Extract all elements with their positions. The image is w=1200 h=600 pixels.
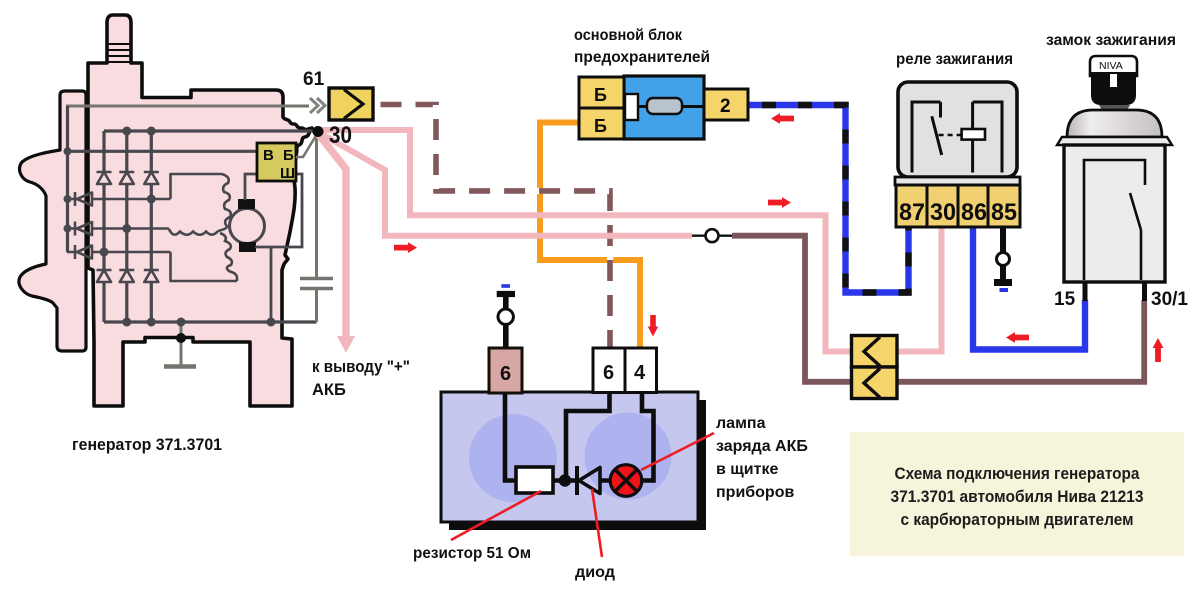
svg-text:замок зажигания: замок зажигания bbox=[1046, 32, 1176, 49]
relay base bar bbox=[895, 177, 1020, 185]
wire blue relay 86 to lock 15 bbox=[973, 227, 1085, 350]
rectifier bottom diodes bbox=[97, 270, 159, 282]
diode bbox=[575, 466, 579, 495]
red arrow right near node30 bbox=[394, 242, 417, 253]
svg-text:85: 85 bbox=[991, 199, 1017, 226]
svg-text:6: 6 bbox=[603, 362, 614, 384]
wire brown to lock 30/1 bbox=[732, 236, 1144, 382]
svg-text:Б: Б bbox=[594, 85, 607, 105]
generator main body bbox=[88, 15, 312, 406]
connector pair boxes bbox=[852, 336, 898, 368]
svg-text:основной блок: основной блок bbox=[574, 27, 683, 44]
voltage regulator box bbox=[257, 143, 296, 181]
resistor 51 Ohm bbox=[516, 467, 553, 493]
fuse terminal 2 bbox=[704, 89, 748, 120]
svg-text:87: 87 bbox=[899, 199, 925, 226]
stator winding phase C bbox=[220, 233, 237, 281]
capacitor bbox=[300, 279, 333, 289]
svg-text:Б: Б bbox=[594, 116, 607, 136]
red annotation lines bbox=[451, 433, 714, 557]
svg-text:в щитке: в щитке bbox=[716, 461, 778, 478]
fuse element bbox=[647, 98, 682, 114]
relay contact bbox=[912, 102, 942, 173]
aux diode 1 bbox=[67, 174, 222, 206]
fuse notch bbox=[625, 94, 638, 120]
regulator feed wire bbox=[68, 150, 259, 153]
svg-text:В: В bbox=[263, 147, 274, 164]
panel circle right bbox=[585, 413, 672, 500]
rectifier top diodes bbox=[97, 172, 159, 184]
junction phase1 winding C bbox=[100, 248, 109, 257]
red arrow down at 4 bbox=[648, 315, 658, 337]
wire pink node30 to connector circle bbox=[318, 132, 692, 236]
capacitor leads bbox=[315, 133, 318, 322]
arrow to battery bbox=[337, 336, 355, 353]
wire pink node30 to relay pin 30 bbox=[318, 130, 942, 352]
junction aux bus regulator feed bbox=[64, 147, 72, 155]
instrument panel bbox=[441, 392, 698, 522]
svg-text:61: 61 bbox=[303, 69, 325, 90]
svg-text:30/1: 30/1 bbox=[1151, 289, 1188, 310]
svg-text:15: 15 bbox=[1054, 289, 1076, 310]
wire orange fuse to panel bbox=[540, 123, 640, 348]
lock body bbox=[1064, 145, 1165, 282]
svg-text:30: 30 bbox=[930, 199, 956, 226]
junction aux bus diode2 bbox=[64, 225, 72, 233]
lock flange bbox=[1057, 137, 1172, 145]
terminal 61 connector box bbox=[329, 88, 373, 120]
lock dome bbox=[1067, 110, 1162, 137]
junction ground bottom bus bbox=[177, 318, 186, 327]
relay 85 ground wire bbox=[1000, 227, 1006, 280]
ground stem bbox=[180, 322, 183, 365]
junction phase2 bottom bus bbox=[122, 318, 131, 327]
ground bar bbox=[164, 364, 196, 369]
lock pin 30/1 bbox=[1142, 283, 1147, 301]
svg-text:2: 2 bbox=[720, 96, 731, 117]
panel ground top bbox=[501, 284, 510, 288]
svg-text:Ш: Ш bbox=[280, 165, 295, 182]
fuse box blue body bbox=[624, 76, 704, 139]
junction phase3 bottom bus bbox=[147, 318, 156, 327]
generator left bracket plate bbox=[19, 91, 86, 351]
svg-text:предохранителей: предохранителей bbox=[574, 49, 710, 66]
charge lamp bbox=[610, 465, 642, 497]
relay coil link dashed bbox=[939, 134, 962, 137]
svg-text:реле зажигания: реле зажигания bbox=[896, 51, 1013, 68]
svg-text:86: 86 bbox=[961, 199, 987, 226]
connector circle bbox=[692, 234, 732, 236]
junction phase2 winding B bbox=[122, 224, 131, 233]
ground body dot bbox=[176, 333, 186, 343]
panel shadow bbox=[449, 400, 706, 530]
relay pin 87 bbox=[896, 185, 927, 227]
lock pin 15 bbox=[1083, 283, 1088, 301]
phase line 2 bbox=[125, 131, 128, 322]
phase line 1 bbox=[102, 131, 105, 322]
svg-text:АКБ: АКБ bbox=[312, 381, 346, 399]
svg-text:Б: Б bbox=[283, 147, 294, 164]
wire brown dashed 61 to panel bbox=[373, 105, 610, 348]
red arrow left at fuse bbox=[771, 113, 794, 124]
panel connector 6 mauve bbox=[489, 348, 522, 393]
svg-text:371.3701 автомобиля Нива 21213: 371.3701 автомобиля Нива 21213 bbox=[891, 488, 1144, 506]
svg-text:Схема подключения генератора: Схема подключения генератора bbox=[895, 465, 1141, 483]
ground minus blue bbox=[1000, 288, 1009, 292]
brush bottom bbox=[239, 242, 256, 252]
svg-text:приборов: приборов bbox=[716, 484, 794, 501]
top bus to node 30 bbox=[104, 129, 316, 132]
phase line 3 bbox=[150, 131, 153, 322]
svg-text:6: 6 bbox=[500, 363, 511, 385]
aux diode bus bbox=[66, 106, 69, 252]
relay body bbox=[898, 82, 1017, 177]
junction phase3 top bus bbox=[147, 127, 156, 136]
svg-text:4: 4 bbox=[634, 362, 646, 384]
panel connector 4 white bbox=[625, 348, 657, 393]
lock switch bbox=[1084, 160, 1145, 280]
junction aux bus diode1 bbox=[64, 195, 72, 203]
svg-text:заряда АКБ: заряда АКБ bbox=[716, 438, 808, 455]
svg-text:лампа: лампа bbox=[716, 415, 766, 432]
relay pin 85 bbox=[988, 185, 1020, 227]
svg-text:с карбюраторным двигателем: с карбюраторным двигателем bbox=[901, 511, 1134, 529]
relay pin 86 bbox=[958, 185, 988, 227]
panel connector 6 white bbox=[593, 348, 625, 393]
wire terminal 61 gray bbox=[68, 106, 310, 151]
fuse terminal Б lower bbox=[579, 108, 624, 139]
caption box bbox=[850, 432, 1184, 556]
wire blue dashed fuse 2 to relay 87 bbox=[748, 105, 909, 293]
key body black bbox=[1091, 72, 1136, 105]
fuse wire bbox=[638, 105, 704, 108]
key shaft bbox=[1099, 105, 1130, 112]
aux diode 2 bbox=[67, 222, 169, 236]
relay pin 30 bbox=[927, 185, 958, 227]
panel circle left bbox=[469, 414, 557, 502]
stator winding phase A bbox=[218, 174, 231, 231]
panel internal wires bbox=[505, 392, 654, 481]
junction phase2 top bus bbox=[122, 127, 131, 136]
key head bbox=[1090, 56, 1137, 76]
ground bar 85 bbox=[994, 279, 1012, 286]
junction brush bottom bus bbox=[267, 318, 276, 327]
svg-text:30: 30 bbox=[329, 122, 352, 149]
svg-text:к выводу "+": к выводу "+" bbox=[312, 358, 410, 376]
stator winding phase B bbox=[169, 229, 218, 235]
brush top bbox=[238, 199, 255, 209]
connector circle 85 bbox=[997, 253, 1010, 266]
svg-text:NIVA: NIVA bbox=[1099, 60, 1123, 72]
aux diode 3 bbox=[67, 245, 237, 281]
red arrow left blue wire bbox=[1006, 332, 1029, 343]
brush wires bbox=[245, 174, 302, 322]
arrow chevrons 61 bbox=[310, 98, 325, 113]
red arrow up brown wire bbox=[1153, 338, 1164, 362]
rotor bbox=[230, 209, 265, 244]
junction phase3 winding A bbox=[147, 195, 156, 204]
bolt hatching bbox=[107, 44, 131, 62]
junction dot bbox=[559, 474, 571, 486]
node 30 dot bbox=[313, 126, 324, 137]
generator 371.3701 assembly bbox=[19, 15, 333, 454]
regulator B wire to node 30 bbox=[296, 134, 317, 157]
bottom bus bbox=[104, 320, 317, 323]
red arrow right to relay bbox=[768, 197, 791, 208]
wire pink to battery bbox=[318, 134, 346, 337]
svg-text:диод: диод bbox=[575, 564, 615, 581]
svg-text:резистор 51 Ом: резистор 51 Ом bbox=[413, 545, 531, 562]
svg-text:генератор 371.3701: генератор 371.3701 bbox=[72, 435, 222, 454]
fuse terminal Б upper bbox=[579, 77, 624, 108]
relay coil bbox=[962, 129, 985, 140]
